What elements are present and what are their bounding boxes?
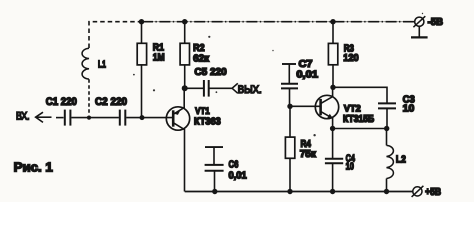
svg-text:0,01: 0,01 — [296, 70, 318, 81]
transistor VT2 — [315, 87, 338, 128]
svg-text:10: 10 — [403, 103, 415, 114]
resistor R4 — [285, 106, 294, 191]
svg-text:+5В: +5В — [425, 187, 441, 198]
wire junction to C5 — [185, 87, 203, 89]
node top rail junction R2 — [182, 19, 187, 24]
svg-text:КТ315Б: КТ315Б — [343, 114, 374, 125]
wire top rail main — [142, 21, 415, 23]
svg-text:VT2: VT2 — [344, 103, 361, 113]
wire output arrow — [232, 83, 238, 93]
svg-text:1М: 1М — [153, 53, 165, 64]
svg-text:75к: 75к — [300, 149, 317, 160]
svg-text:62к: 62к — [193, 54, 210, 65]
node C3 L2 junction — [384, 126, 389, 131]
node bottom rail junction C4 — [330, 189, 335, 194]
wire top rail dashed left segment — [89, 22, 142, 48]
svg-text:L1: L1 — [98, 59, 106, 70]
terminal -5V — [411, 16, 428, 37]
wire base VT2 — [290, 105, 321, 107]
svg-text:VT1: VT1 — [195, 106, 210, 116]
svg-text:С2 220: С2 220 — [95, 96, 127, 108]
svg-text:L2: L2 — [396, 154, 406, 165]
transistor VT1 — [166, 88, 189, 191]
resistor R1 — [137, 22, 146, 118]
svg-text:R4: R4 — [301, 139, 312, 150]
resistor R3 — [328, 22, 337, 88]
terminal +5V — [412, 186, 424, 197]
node bottom rail junction R4 — [287, 189, 292, 194]
capacitor C5 — [204, 80, 232, 97]
inductor L2 — [387, 129, 394, 192]
svg-text:R2: R2 — [193, 43, 205, 54]
svg-text:С1 220: С1 220 — [46, 96, 77, 108]
node bottom rail junction C6 — [212, 189, 217, 194]
svg-text:0,01: 0,01 — [229, 171, 247, 182]
node emitter junction VT2 — [330, 126, 335, 131]
speckles — [133, 13, 423, 137]
capacitor C7 — [281, 64, 298, 106]
resistor R2 — [180, 22, 189, 89]
wire input to C2 — [89, 117, 119, 119]
node top rail junction R3 — [330, 19, 335, 24]
svg-text:-5В: -5В — [428, 17, 444, 28]
node base junction R1 — [140, 115, 145, 120]
capacitor C4 — [325, 129, 343, 192]
svg-text:10: 10 — [346, 161, 354, 172]
capacitor C3 — [378, 103, 396, 128]
node bottom rail junction L2 — [384, 189, 389, 194]
node input junction L1 — [87, 116, 91, 120]
inductor L1 — [82, 48, 89, 114]
node emitter VT1 / C5 junction — [182, 85, 188, 91]
svg-text:КТ363: КТ363 — [194, 116, 221, 127]
svg-text:ВХ.: ВХ. — [16, 111, 30, 123]
wire input segment — [56, 117, 64, 119]
node top rail junction R1 — [139, 19, 144, 24]
node base junction VT2 — [287, 104, 292, 109]
capacitor C2 — [120, 110, 173, 126]
capacitor C6 — [205, 147, 224, 191]
wire bottom rail — [185, 191, 413, 193]
svg-text:120: 120 — [343, 53, 359, 64]
svg-text:ВЫХ.: ВЫХ. — [238, 84, 262, 96]
svg-text:С5 220: С5 220 — [194, 67, 227, 78]
wire emitter to L2 — [333, 128, 387, 130]
svg-text:С6: С6 — [229, 160, 239, 171]
node collector junction VT2 — [330, 85, 335, 90]
wire input arrow — [36, 112, 52, 122]
capacitor C1 — [65, 110, 89, 126]
wire collector to C3 — [333, 87, 387, 103]
svg-text:Рис. 1: Рис. 1 — [14, 159, 53, 174]
